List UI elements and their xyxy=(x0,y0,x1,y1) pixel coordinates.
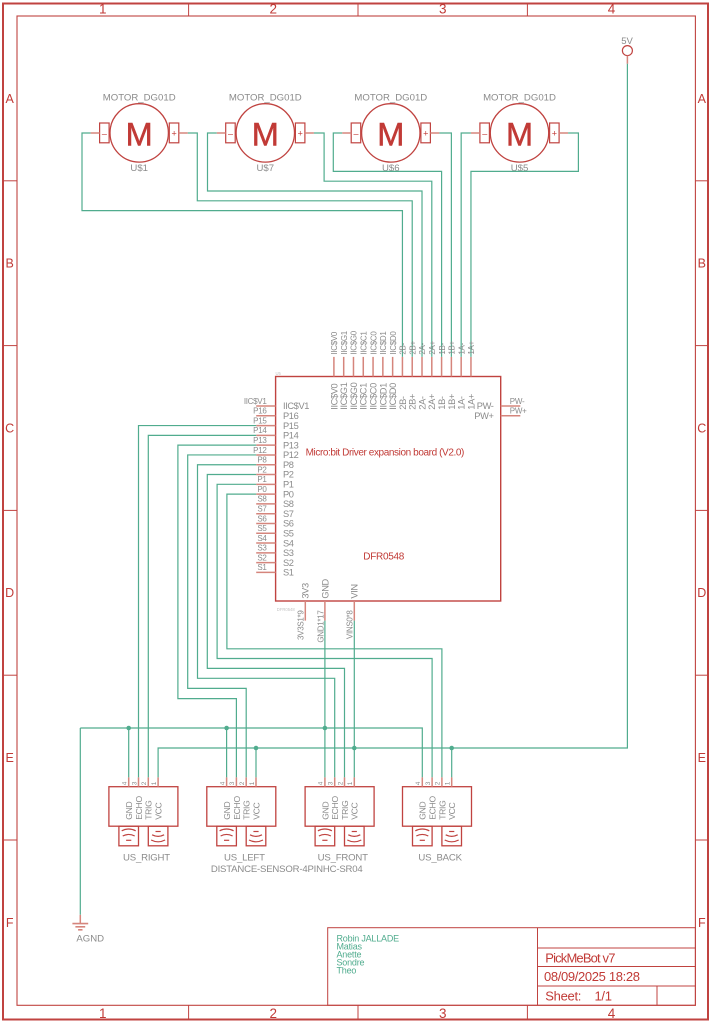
svg-text:S7: S7 xyxy=(283,509,294,519)
svg-text:IIC$V1: IIC$V1 xyxy=(283,401,309,411)
svg-text:+: + xyxy=(171,128,176,138)
driver pin P15 (left) xyxy=(253,416,298,430)
wire driver VIN to 5V rail xyxy=(353,621,355,748)
wire GND branch US_FRONT xyxy=(324,728,326,777)
wire U$7 - to pin 2A- xyxy=(208,133,423,357)
svg-text:1A-: 1A- xyxy=(457,342,466,354)
svg-text:VCC: VCC xyxy=(251,802,261,819)
title block xyxy=(328,928,696,1006)
driver pin PW+ (right) xyxy=(474,407,527,421)
wire P15 to US_RIGHT ECHO xyxy=(139,426,257,778)
svg-text:E: E xyxy=(698,751,706,765)
wire GND branch US_RIGHT xyxy=(128,728,130,777)
svg-text:IIC$V0: IIC$V0 xyxy=(330,331,339,355)
svg-text:5V: 5V xyxy=(621,36,633,47)
svg-text:C: C xyxy=(697,421,706,435)
svg-text:3: 3 xyxy=(439,1006,447,1021)
driver pin P13 (left) xyxy=(253,436,298,450)
sensor US_FRONT HC-SR04 xyxy=(305,777,374,863)
svg-text:1: 1 xyxy=(249,781,256,785)
svg-text:P0: P0 xyxy=(283,489,294,499)
junction xyxy=(323,726,328,731)
driver pin S7 (left) xyxy=(256,504,294,518)
svg-text:AGND: AGND xyxy=(76,934,104,945)
wire P8 to US_FRONT ECHO xyxy=(198,465,335,778)
svg-text:S8: S8 xyxy=(283,499,294,509)
svg-text:1B-: 1B- xyxy=(438,342,447,354)
svg-text:P1: P1 xyxy=(257,475,267,484)
svg-text:IIC$G1: IIC$G1 xyxy=(339,382,349,409)
svg-text:U$7: U$7 xyxy=(256,163,274,174)
wire U$5 + to pin 1A+ xyxy=(471,133,578,357)
svg-text:S2: S2 xyxy=(257,553,267,562)
svg-text:1A+: 1A+ xyxy=(466,394,476,410)
svg-text:B: B xyxy=(6,257,14,271)
svg-text:S1: S1 xyxy=(257,563,267,572)
svg-text:Theo: Theo xyxy=(337,966,357,976)
motor U$1 MOTOR_DG01D xyxy=(91,92,188,173)
svg-text:IIC$C1: IIC$C1 xyxy=(359,331,368,355)
svg-text:VINS0*8: VINS0*8 xyxy=(346,610,355,639)
svg-text:A: A xyxy=(698,92,707,106)
junction xyxy=(352,746,357,751)
svg-text:P8: P8 xyxy=(283,460,294,470)
svg-text:US_FRONT: US_FRONT xyxy=(318,853,368,864)
svg-text:S1: S1 xyxy=(283,568,294,578)
driver pin 2A- (top) xyxy=(417,342,427,409)
svg-text:1B-: 1B- xyxy=(437,396,447,410)
svg-text:VIN: VIN xyxy=(350,584,360,598)
frame column numbers xyxy=(99,2,616,1021)
svg-text:4: 4 xyxy=(608,1006,616,1021)
svg-text:IIC$V0: IIC$V0 xyxy=(329,383,339,409)
driver pin P1 (left) xyxy=(256,475,294,489)
svg-text:VCC: VCC xyxy=(447,802,457,819)
svg-text:IIC$G1: IIC$G1 xyxy=(340,330,349,354)
driver pin 1B- (top) xyxy=(437,342,447,409)
driver pin IIC$C1 (top) xyxy=(359,331,369,410)
wire P14 to US_RIGHT TRIG xyxy=(148,435,256,777)
wire U$5 - to pin 1A- xyxy=(461,133,471,357)
driver pin 2A+ (top) xyxy=(427,340,437,409)
svg-text:U5: U5 xyxy=(276,371,282,376)
wire P1 to US_BACK ECHO xyxy=(217,484,432,777)
driver pin 1A- (top) xyxy=(457,342,467,409)
svg-text:IIC$D0: IIC$D0 xyxy=(388,383,398,410)
driver pin GND (bottom) xyxy=(316,578,330,642)
wire GND rail to AGND xyxy=(79,728,81,915)
wire P0 to US_BACK TRIG xyxy=(227,494,442,777)
svg-text:P2: P2 xyxy=(257,465,267,474)
svg-text:ECHO: ECHO xyxy=(428,796,438,820)
svg-text:+: + xyxy=(552,128,557,138)
svg-text:PW+: PW+ xyxy=(510,407,527,416)
svg-text:S5: S5 xyxy=(283,528,294,538)
driver pin IIC$D0 (top) xyxy=(388,331,398,410)
driver pin IIC$V1 (left) xyxy=(244,397,309,411)
svg-text:DFR0548: DFR0548 xyxy=(277,607,296,612)
svg-text:P2: P2 xyxy=(283,470,294,480)
wire net 5V vertical + rail xyxy=(158,64,627,778)
wire P2 to US_FRONT TRIG xyxy=(207,475,344,778)
svg-text:Sheet:: Sheet: xyxy=(545,988,581,1003)
svg-text:US_RIGHT: US_RIGHT xyxy=(123,853,170,864)
svg-text:2: 2 xyxy=(239,781,246,785)
svg-text:B: B xyxy=(698,257,706,271)
svg-text:MOTOR_DG01D: MOTOR_DG01D xyxy=(354,92,427,103)
wire U$6 + to pin 1B+ xyxy=(439,133,451,357)
svg-text:U$5: U$5 xyxy=(511,163,529,174)
svg-text:2: 2 xyxy=(141,781,148,785)
svg-text:GND: GND xyxy=(320,578,330,598)
svg-text:P12: P12 xyxy=(253,446,267,455)
svg-text:VCC: VCC xyxy=(154,802,164,819)
svg-text:2B+: 2B+ xyxy=(408,340,417,354)
ground AGND xyxy=(72,915,104,945)
svg-text:D: D xyxy=(697,586,706,600)
svg-text:P13: P13 xyxy=(253,436,267,445)
svg-text:TRIG: TRIG xyxy=(144,800,154,820)
svg-text:08/09/2025 18:28: 08/09/2025 18:28 xyxy=(544,969,640,984)
svg-text:1: 1 xyxy=(151,781,158,785)
driver pin 1B+ (top) xyxy=(447,340,457,409)
wire GND branch US_LEFT xyxy=(226,728,228,777)
wire 5V branch US_FRONT VCC xyxy=(353,748,355,777)
driver pin S3 (left) xyxy=(256,544,294,558)
wire U$1 - to pin 2B- xyxy=(82,133,402,357)
wire U$6 - to pin 1B- xyxy=(333,133,441,357)
svg-text:S4: S4 xyxy=(257,534,267,543)
svg-text:DISTANCE-SENSOR-4PINHC-SR04: DISTANCE-SENSOR-4PINHC-SR04 xyxy=(211,864,364,875)
svg-text:MOTOR_DG01D: MOTOR_DG01D xyxy=(103,92,176,103)
svg-text:ECHO: ECHO xyxy=(134,796,144,820)
svg-text:IIC$G0: IIC$G0 xyxy=(349,382,359,409)
svg-text:2: 2 xyxy=(435,781,442,785)
wire 5V branch US_LEFT VCC xyxy=(255,748,257,777)
svg-text:1A-: 1A- xyxy=(457,396,467,410)
svg-text:–: – xyxy=(482,128,487,138)
driver pin PW- (right) xyxy=(477,397,525,411)
svg-text:F: F xyxy=(698,916,706,930)
svg-text:IIC$G0: IIC$G0 xyxy=(350,330,359,354)
svg-text:TRIG: TRIG xyxy=(340,800,350,820)
svg-text:2A+: 2A+ xyxy=(427,394,437,410)
svg-text:E: E xyxy=(6,751,14,765)
junction xyxy=(126,726,131,731)
svg-text:–: – xyxy=(102,128,107,138)
svg-text:P8: P8 xyxy=(257,456,267,465)
svg-text:Micro:bit Driver expansion boa: Micro:bit Driver expansion board (V2.0) xyxy=(306,448,464,459)
svg-text:P16: P16 xyxy=(283,411,299,421)
wire P12 to US_LEFT TRIG xyxy=(188,455,257,777)
svg-text:P15: P15 xyxy=(253,416,267,425)
wire U$1 + to pin 2B+ xyxy=(188,133,412,357)
driver pin P2 (left) xyxy=(256,465,294,479)
svg-text:1: 1 xyxy=(99,1006,107,1021)
svg-text:GND: GND xyxy=(320,802,330,820)
sensor US_RIGHT HC-SR04 xyxy=(109,777,178,863)
svg-text:P13: P13 xyxy=(283,440,299,450)
svg-text:3: 3 xyxy=(425,781,432,785)
svg-text:2: 2 xyxy=(270,2,278,17)
svg-text:S7: S7 xyxy=(257,504,267,513)
motor U$5 MOTOR_DG01D xyxy=(471,92,568,173)
svg-text:ECHO: ECHO xyxy=(232,796,242,820)
driver pin 2B- (top) xyxy=(398,342,408,409)
wire P13 to US_LEFT ECHO xyxy=(178,445,256,777)
svg-text:3: 3 xyxy=(131,781,138,785)
svg-text:S6: S6 xyxy=(257,514,267,523)
driver pin VIN (bottom) xyxy=(346,584,360,639)
driver pin P8 (left) xyxy=(256,456,294,470)
driver pin IIC$V0 (top) xyxy=(329,331,339,410)
svg-text:ECHO: ECHO xyxy=(330,796,340,820)
wire U$7 + to pin 2A+ xyxy=(314,133,432,357)
driver pin P14 (left) xyxy=(253,426,298,440)
motor U$6 MOTOR_DG01D xyxy=(342,92,439,173)
svg-text:1/1: 1/1 xyxy=(595,988,612,1003)
svg-text:PW+: PW+ xyxy=(474,411,493,421)
svg-text:M: M xyxy=(252,116,279,152)
svg-text:2A-: 2A- xyxy=(418,342,427,354)
svg-text:MOTOR_DG01D: MOTOR_DG01D xyxy=(229,92,302,103)
driver board U5 DFR0548 outline xyxy=(276,371,501,612)
svg-text:S3: S3 xyxy=(283,548,294,558)
driver pin 3V3 (bottom) xyxy=(297,583,311,640)
driver pin P12 (left) xyxy=(253,446,298,460)
svg-text:–: – xyxy=(353,128,358,138)
wire driver GND down xyxy=(324,621,326,728)
svg-text:2B-: 2B- xyxy=(399,342,408,354)
svg-text:IIC$D1: IIC$D1 xyxy=(379,331,388,355)
sensor family value DISTANCE-SENSOR-4PINHC-SR04 xyxy=(211,864,364,875)
driver pin IIC$C0 (top) xyxy=(368,331,378,410)
motor U$7 MOTOR_DG01D xyxy=(217,92,314,173)
svg-text:U$1: U$1 xyxy=(130,163,148,174)
junction xyxy=(254,746,259,751)
svg-text:2B+: 2B+ xyxy=(408,394,418,410)
title block date xyxy=(544,969,640,984)
svg-text:IIC$C0: IIC$C0 xyxy=(368,383,378,410)
svg-text:P12: P12 xyxy=(283,450,299,460)
svg-text:PickMeBot v7: PickMeBot v7 xyxy=(545,951,615,966)
svg-text:1A+: 1A+ xyxy=(467,340,476,354)
svg-text:3: 3 xyxy=(229,781,236,785)
driver pin IIC$G0 (top) xyxy=(349,330,359,409)
svg-text:4: 4 xyxy=(122,781,129,785)
svg-text:1: 1 xyxy=(347,781,354,785)
driver pin 2B+ (top) xyxy=(408,340,418,409)
svg-text:C: C xyxy=(5,421,14,435)
svg-text:VCC: VCC xyxy=(350,802,360,819)
svg-text:IIC$C1: IIC$C1 xyxy=(359,383,369,410)
svg-text:S5: S5 xyxy=(257,524,267,533)
driver pin S5 (left) xyxy=(256,524,294,538)
svg-text:P0: P0 xyxy=(257,485,267,494)
svg-text:1: 1 xyxy=(99,2,107,17)
svg-text:PW-: PW- xyxy=(477,401,494,411)
svg-text:P14: P14 xyxy=(283,431,299,441)
svg-text:3V3S1*9: 3V3S1*9 xyxy=(297,610,306,640)
power supply 5V xyxy=(621,36,633,64)
svg-text:GND1*17: GND1*17 xyxy=(316,610,325,643)
svg-text:A: A xyxy=(6,92,15,106)
title block sheet xyxy=(545,988,611,1003)
svg-text:P16: P16 xyxy=(253,407,267,416)
svg-text:S2: S2 xyxy=(283,558,294,568)
svg-text:S6: S6 xyxy=(283,519,294,529)
svg-text:4: 4 xyxy=(415,781,422,785)
sensor US_BACK HC-SR04 xyxy=(403,777,472,863)
junction xyxy=(224,726,229,731)
driver pin IIC$D1 (top) xyxy=(378,331,388,410)
svg-text:4: 4 xyxy=(219,781,226,785)
svg-text:IIC$D0: IIC$D0 xyxy=(389,331,398,355)
svg-text:2: 2 xyxy=(270,1006,278,1021)
title block document name PickMeBot v7 xyxy=(545,951,615,966)
svg-text:S3: S3 xyxy=(257,544,267,553)
svg-text:+: + xyxy=(298,128,303,138)
driver pin S4 (left) xyxy=(256,534,294,548)
svg-text:US_BACK: US_BACK xyxy=(418,853,462,864)
svg-text:IIC$V1: IIC$V1 xyxy=(244,397,268,406)
driver pin P0 (left) xyxy=(256,485,294,499)
svg-text:S8: S8 xyxy=(257,495,267,504)
driver pin S1 (left) xyxy=(256,563,294,577)
driver pin 1A+ (top) xyxy=(466,340,476,409)
svg-text:U$6: U$6 xyxy=(382,163,400,174)
junction xyxy=(449,746,454,751)
svg-text:S4: S4 xyxy=(283,538,294,548)
title block author names xyxy=(337,933,400,975)
svg-text:DFR0548: DFR0548 xyxy=(363,552,404,563)
svg-text:US_LEFT: US_LEFT xyxy=(224,853,265,864)
wire net GND rail xyxy=(80,728,422,777)
svg-text:P1: P1 xyxy=(283,480,294,490)
svg-text:3V3: 3V3 xyxy=(301,583,311,599)
svg-text:GND: GND xyxy=(418,802,428,820)
svg-text:P14: P14 xyxy=(253,426,267,435)
svg-text:GND: GND xyxy=(222,802,232,820)
svg-text:4: 4 xyxy=(608,2,616,17)
svg-text:1: 1 xyxy=(445,781,452,785)
svg-text:F: F xyxy=(6,916,14,930)
svg-text:D: D xyxy=(5,586,14,600)
svg-text:4: 4 xyxy=(318,781,325,785)
svg-text:P15: P15 xyxy=(283,421,299,431)
svg-text:M: M xyxy=(126,116,153,152)
svg-text:IIC$D1: IIC$D1 xyxy=(378,383,388,410)
svg-text:1B+: 1B+ xyxy=(448,340,457,354)
svg-text:2A-: 2A- xyxy=(417,396,427,410)
driver pin S6 (left) xyxy=(256,514,294,528)
svg-text:–: – xyxy=(228,128,233,138)
svg-text:M: M xyxy=(377,116,404,152)
svg-text:M: M xyxy=(506,116,533,152)
driver pin S8 (left) xyxy=(256,495,294,509)
driver pin IIC$G1 (top) xyxy=(339,330,349,409)
svg-text:MOTOR_DG01D: MOTOR_DG01D xyxy=(483,92,556,103)
svg-text:3: 3 xyxy=(439,2,447,17)
svg-text:+: + xyxy=(423,128,428,138)
svg-text:PW-: PW- xyxy=(510,397,525,406)
svg-text:2: 2 xyxy=(337,781,344,785)
wire 5V branch US_BACK VCC xyxy=(451,748,453,777)
svg-text:IIC$C0: IIC$C0 xyxy=(369,331,378,355)
svg-text:TRIG: TRIG xyxy=(242,800,252,820)
svg-text:2A+: 2A+ xyxy=(428,340,437,354)
svg-text:2B-: 2B- xyxy=(398,396,408,410)
svg-text:3: 3 xyxy=(328,781,335,785)
driver pin P16 (left) xyxy=(253,407,298,421)
driver pin S2 (left) xyxy=(256,553,294,567)
svg-text:TRIG: TRIG xyxy=(437,800,447,820)
sensor US_LEFT HC-SR04 xyxy=(207,777,276,863)
svg-text:1B+: 1B+ xyxy=(447,394,457,410)
svg-text:GND: GND xyxy=(124,802,134,820)
